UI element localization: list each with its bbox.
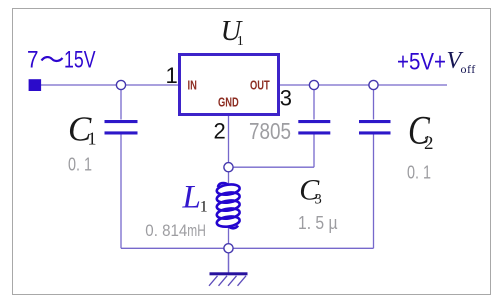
capacitor C1 plates (105, 120, 138, 123)
svg-text:2: 2 (424, 133, 434, 154)
svg-text:3: 3 (315, 192, 322, 208)
input terminal square (29, 79, 41, 91)
wire C2 upper lead (373, 89, 375, 120)
svg-text:IN: IN (188, 79, 197, 93)
wire C1 lower lead down to bottom rail (120, 134, 122, 248)
svg-text:off: off (461, 62, 476, 76)
svg-text:2: 2 (214, 119, 226, 144)
wire L1 top lead (228, 172, 230, 185)
svg-text:OUT: OUT (250, 79, 270, 93)
wire C1 upper lead (120, 89, 122, 120)
svg-text:L: L (182, 180, 201, 216)
op-amp regulator U1 box (180, 55, 279, 115)
wire pin2 GND lead (228, 116, 230, 163)
wire C3 lower lead (313, 134, 315, 167)
svg-text:GND: GND (218, 96, 239, 110)
svg-text:1: 1 (88, 128, 97, 148)
svg-text:0. 1: 0. 1 (407, 163, 431, 183)
svg-text:+5V+: +5V+ (397, 49, 446, 76)
wire output from U1 OUT to right end (280, 84, 447, 86)
svg-text:1: 1 (166, 63, 178, 88)
capacitor C2 plates (359, 120, 391, 123)
svg-text:7805: 7805 (249, 118, 291, 144)
wire C3 to GND node horizontal (229, 166, 315, 168)
node input junction (116, 80, 125, 89)
wire C3 upper lead (313, 89, 315, 120)
svg-text:7: 7 (27, 47, 39, 74)
capacitor C3 plates (298, 120, 330, 123)
wire L1 bottom lead (228, 228, 230, 245)
wire input from terminal to U1 IN (41, 84, 178, 86)
wire C2 lower lead down to bottom rail (373, 134, 375, 248)
wire bottom rail (121, 247, 374, 249)
node OUT junction at C3 (309, 80, 318, 89)
node bottom rail junction (224, 244, 233, 253)
wire ground stem (228, 253, 230, 273)
svg-text:0. 1: 0. 1 (68, 155, 92, 175)
node GND/L1/C3 junction (224, 163, 233, 172)
inductor L1 coil (216, 183, 240, 228)
ground (209, 272, 248, 286)
node OUT junction at C2 (369, 80, 378, 89)
svg-text:1: 1 (200, 199, 208, 216)
svg-text:0. 814mH: 0. 814mH (145, 221, 206, 240)
svg-text:1: 1 (237, 34, 244, 49)
svg-text:3: 3 (280, 86, 292, 111)
svg-text:1. 5 µ: 1. 5 µ (298, 213, 338, 233)
svg-text:15V: 15V (64, 47, 96, 74)
